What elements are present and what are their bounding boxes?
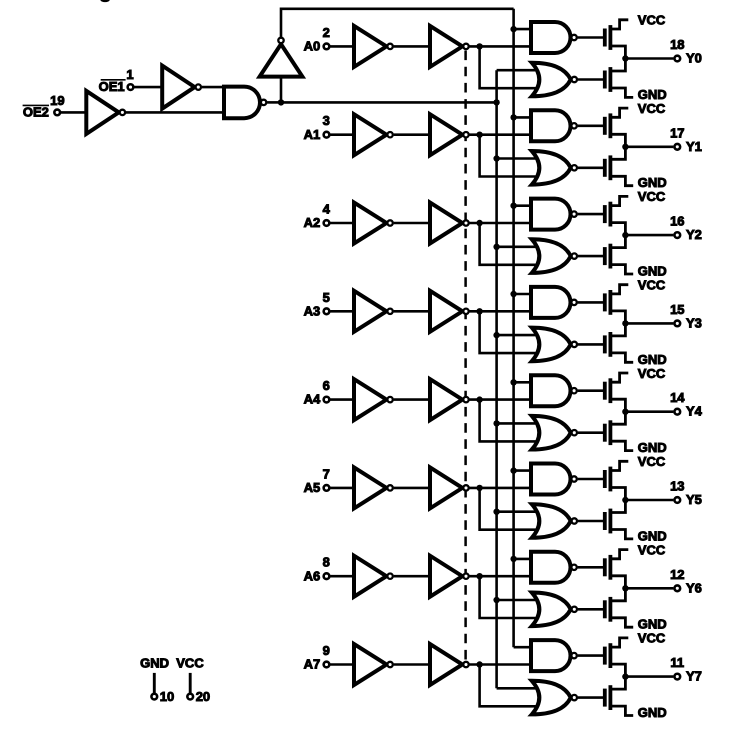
transistor Q3 source lead to output [610,134,625,147]
transistor Q8 gate bar [603,335,607,353]
wire NOR row 4 to transistor gate [578,431,605,434]
svg-text:VCC: VCC [638,101,666,116]
node output Y4 junction [622,409,628,415]
transistor Q2 gate bar [603,71,607,89]
transistor Q16 gate bar [603,689,607,707]
junction data node row 1 [476,132,482,138]
transistor Q3 gate bar [603,117,607,135]
svg-text:VCC: VCC [638,631,666,646]
output terminal Y4 (pin 14) [674,409,680,415]
bubble NOR row 7 [572,695,577,700]
wire A0 to first buffer [330,45,355,48]
transistor Q6 channel [609,244,613,269]
wire output to terminal Y7 [625,675,673,678]
wire A7 data to NAND row 7 [470,663,534,666]
wire A5 data to NAND row 5 [470,487,534,490]
wire net ENL branch to NOR row 7 [497,687,544,690]
wire NAND row 5 to transistor gate [578,478,605,481]
transistor Q13 source lead to output [610,576,625,589]
wire A2 first to second buffer [394,222,432,225]
transistor Q11 gate bar [603,470,607,488]
bubble inverter U2 [196,84,201,89]
junction data node row 5 [476,485,482,491]
svg-text:19: 19 [50,93,64,108]
wire NAND row 0 to transistor gate [578,36,605,39]
svg-text:A4: A4 [304,392,321,407]
transistor Q9 source lead to output [610,399,625,412]
svg-text:VCC: VCC [638,189,666,204]
svg-text:Y5: Y5 [686,492,702,507]
bubble NAND U3 output [261,100,266,105]
output terminal Y0 (pin 18) [674,56,680,62]
wire data drop to NOR row 5 [480,488,544,530]
buffer A5 second stage [430,467,462,508]
wire A2 to first buffer [330,222,355,225]
svg-text:4: 4 [323,202,331,217]
svg-text:OE1: OE1 [99,79,125,94]
svg-text:A7: A7 [304,657,321,672]
buffer A3 second stage [430,291,462,332]
overline for OE1 [101,79,126,81]
bubble A2 second stage [463,220,468,225]
junction net ENL row 6 [493,597,499,603]
NOR gate row 0 [532,63,571,97]
wire node EN to enable buffer U4 [280,78,283,103]
wire NAND row 4 to transistor gate [578,389,605,392]
svg-text:Y2: Y2 [686,227,702,242]
junction net ENH row 0 [510,26,516,32]
svg-text:GND: GND [638,617,667,632]
svg-text:Y7: Y7 [686,669,702,684]
wire A4 first to second buffer [394,398,432,401]
NAND gate row 4 [531,375,571,406]
svg-text:OE2: OE2 [23,105,49,120]
cropped text glyph fragment at top edge [100,0,109,2]
input terminal A2 (pin 4) [324,220,330,226]
bubble A6 first stage [387,574,392,579]
wire A1 first to second buffer [394,133,432,136]
transistor Q7 channel [609,290,613,315]
bubble A4 first stage [387,397,392,402]
wire output to terminal Y4 [625,410,673,413]
bubble NAND row 0 [571,35,576,40]
transistor Q9 channel [609,378,613,403]
enable NAND U3 [224,87,260,119]
svg-text:A2: A2 [304,215,321,230]
bubble NOR row 4 [572,430,577,435]
node output Y7 junction [622,673,628,679]
input terminal A7 (pin 9) [324,662,330,668]
wire A3 data to NAND row 3 [470,310,534,313]
NOR gate row 1 [532,151,571,185]
wire net ENL branch to NOR row 0 [497,69,544,72]
bubble A1 first stage [387,132,392,137]
transistor Q5 source lead to output [610,223,625,236]
wire VCC pin lead [189,673,192,693]
NOR gate row 4 [532,416,571,450]
junction data node row 4 [476,396,482,402]
junction net ENL row 4 [493,420,499,426]
bubble A2 first stage [387,220,392,225]
wire A3 first to second buffer [394,310,432,313]
junction data node row 3 [476,308,482,314]
wire A7 first to second buffer [394,663,432,666]
wire NOR row 1 to transistor gate [578,167,605,170]
transistor Q7 source lead to output [610,311,625,324]
wire net ENH branch to NAND row 7 [514,646,534,649]
transistor Q1 gate bar [603,29,607,47]
transistor Q1 drain lead to VCC [610,20,628,29]
wire NOR row 7 to transistor gate [578,696,605,699]
transistor Q2 drain lead to output [610,59,625,72]
wire data drop to NOR row 1 [480,135,544,177]
buffer A5 first stage [354,467,387,508]
bubble NAND row 6 [571,565,576,570]
node EN junction [278,99,284,105]
transistor Q14 channel [609,597,613,622]
wire A6 to first buffer [330,575,355,578]
transistor Q11 drain lead to VCC [610,461,628,470]
wire NAND U3 output to node EN [267,101,281,104]
transistor Q10 channel [609,420,613,445]
bubble NOR row 3 [572,342,577,347]
wire OE2 to inverter [61,111,88,114]
svg-text:VCC: VCC [638,542,666,557]
svg-text:Y3: Y3 [686,315,702,330]
transistor Q10 gate bar [603,424,607,442]
node output Y2 junction [622,232,628,238]
bubble A0 first stage [387,44,392,49]
wire NOR row 0 to transistor gate [578,78,605,81]
bubble NOR row 0 [572,77,577,82]
svg-text:VCC: VCC [638,278,666,293]
bubble A1 second stage [463,132,468,137]
svg-text:GND: GND [638,175,667,190]
overline for OE2 [23,104,49,106]
inverter U2 (OE1 path) [162,66,195,109]
svg-text:VCC: VCC [638,13,666,28]
wire net ENL vertical [495,70,498,688]
svg-text:6: 6 [323,378,330,393]
svg-text:GND: GND [638,528,667,543]
buffer A1 second stage [430,114,462,155]
transistor Q15 source lead to output [610,664,625,677]
node output Y5 junction [622,497,628,503]
svg-text:GND: GND [638,87,667,102]
svg-text:3: 3 [323,113,330,128]
bubble NAND row 4 [571,388,576,393]
input terminal OE2 (pin 19) [54,110,60,116]
transistor Q1 source lead to output [610,46,625,59]
wire net ENL branch to NOR row 2 [497,246,544,249]
wire NOR row 6 to transistor gate [578,608,605,611]
NAND gate row 7 [531,640,571,671]
wire net ENH top rail [281,9,514,37]
svg-text:17: 17 [670,125,684,140]
NAND gate row 2 [531,199,571,230]
transistor Q4 channel [609,155,613,180]
output terminal Y3 (pin 15) [674,321,680,327]
transistor Q15 gate bar [603,647,607,665]
transistor Q5 channel [609,202,613,227]
svg-text:11: 11 [670,655,684,670]
transistor Q2 channel [609,67,613,92]
wire A0 first to second buffer [394,45,432,48]
wire net ENL horizontal [281,101,497,104]
svg-text:GND: GND [638,440,667,455]
node ENL junction [493,99,499,105]
bubble A3 first stage [387,309,392,314]
transistor Q12 channel [609,509,613,534]
wire A1 to first buffer [330,133,355,136]
junction net ENL row 3 [493,332,499,338]
svg-text:13: 13 [670,479,684,494]
input terminal A4 (pin 6) [324,397,330,403]
NOR gate row 3 [532,328,571,362]
transistor Q16 drain lead to output [610,677,625,690]
NAND gate row 6 [531,552,571,583]
bubble inverter U1 [120,110,125,115]
transistor Q7 gate bar [603,293,607,311]
power terminal VCC (pin 20) [187,694,193,700]
transistor Q9 drain lead to VCC [610,373,628,382]
svg-text:8: 8 [323,555,330,570]
buffer A7 first stage [354,644,387,685]
svg-text:2: 2 [323,25,330,40]
transistor Q9 gate bar [603,382,607,400]
svg-text:Y6: Y6 [686,580,702,595]
transistor Q11 source lead to output [610,488,625,501]
wire net ENH branch to NAND row 1 [514,116,534,119]
buffer A3 first stage [354,291,387,332]
junction net ENL row 5 [493,509,499,515]
wire net ENL branch to NOR row 6 [497,599,544,602]
wire output to terminal Y3 [625,322,673,325]
wire OE1 to inverter [134,86,163,89]
svg-text:16: 16 [670,214,684,229]
transistor Q8 channel [609,332,613,357]
transistor Q5 gate bar [603,205,607,223]
bubble A5 second stage [463,485,468,490]
bubble A4 second stage [463,397,468,402]
output terminal Y6 (pin 12) [674,585,680,591]
svg-text:Y1: Y1 [686,139,702,154]
bubble NOR row 6 [572,607,577,612]
output terminal Y2 (pin 16) [674,232,680,238]
input terminal A0 (pin 2) [324,44,330,50]
dashed internal boundary line [464,51,467,662]
node output Y6 junction [622,585,628,591]
wire inverter U2 to NAND U3 [202,86,225,89]
svg-text:5: 5 [323,290,330,305]
NAND gate row 0 [531,22,570,53]
buffer A4 first stage [354,379,387,420]
wire net ENH branch to NAND row 0 [514,28,534,31]
wire NAND row 1 to transistor gate [578,125,605,128]
bubble NAND row 5 [571,476,576,481]
transistor Q13 drain lead to VCC [610,550,628,559]
wire output to terminal Y1 [625,146,673,149]
transistor Q8 drain lead to output [610,323,625,336]
transistor Q8 source lead to GND [610,353,633,362]
wire NOR row 2 to transistor gate [578,255,605,258]
svg-text:VCC: VCC [176,655,204,670]
svg-text:GND: GND [140,655,169,670]
wire net ENH branch to NAND row 4 [514,381,534,384]
NAND gate row 3 [531,287,571,318]
svg-text:A5: A5 [304,480,321,495]
svg-text:VCC: VCC [638,366,666,381]
svg-text:GND: GND [638,705,667,720]
NOR gate row 2 [532,239,571,273]
bubble NOR row 5 [572,518,577,523]
transistor Q14 drain lead to output [610,588,625,601]
bubble A5 first stage [387,485,392,490]
input terminal OE1 (pin 1) [128,84,134,90]
junction data node row 6 [476,573,482,579]
wire data drop to NOR row 6 [480,576,544,618]
wire A2 data to NAND row 2 [470,222,534,225]
junction net ENH row 5 [510,467,516,473]
wire data drop to NOR row 0 [480,46,544,88]
svg-text:VCC: VCC [638,454,666,469]
transistor Q12 source lead to GND [610,530,633,539]
transistor Q3 drain lead to VCC [610,108,628,117]
wire A6 data to NAND row 6 [470,575,534,578]
junction data node row 2 [476,220,482,226]
transistor Q10 drain lead to output [610,412,625,425]
NOR gate row 5 [532,504,571,538]
junction net ENH row 3 [510,291,516,297]
wire net ENH branch to NAND row 3 [514,293,534,296]
transistor Q13 gate bar [603,558,607,576]
buffer A6 second stage [430,556,462,597]
buffer A4 second stage [430,379,462,420]
transistor Q4 drain lead to output [610,147,625,160]
wire output to terminal Y5 [625,499,673,502]
transistor Q14 gate bar [603,600,607,618]
wire A3 to first buffer [330,310,355,313]
junction data node row 0 [476,43,482,49]
transistor Q15 channel [609,643,613,668]
transistor Q6 source lead to GND [610,265,633,274]
wire NAND row 6 to transistor gate [578,566,605,569]
transistor Q5 drain lead to VCC [610,196,628,205]
svg-text:10: 10 [160,689,174,704]
svg-text:GND: GND [638,264,667,279]
wire NAND row 3 to transistor gate [578,301,605,304]
bubble NAND row 2 [571,211,576,216]
output terminal Y5 (pin 13) [674,497,680,503]
wire A5 to first buffer [330,487,355,490]
wire data drop to NOR row 4 [480,400,544,442]
wire A5 first to second buffer [394,487,432,490]
node output Y1 junction [622,144,628,150]
inverter U1 (OE2 path) [86,91,119,134]
bubble A6 second stage [463,574,468,579]
output terminal Y1 (pin 17) [674,144,680,150]
svg-text:9: 9 [323,643,330,658]
wire data drop to NOR row 3 [480,311,544,353]
transistor Q7 drain lead to VCC [610,285,628,294]
wire A4 to first buffer [330,398,355,401]
transistor Q15 drain lead to VCC [610,638,628,647]
wire net ENH branch to NAND row 5 [514,469,534,472]
wire A7 to first buffer [330,663,355,666]
svg-text:Y0: Y0 [686,51,702,66]
bubble A3 second stage [463,309,468,314]
svg-text:A6: A6 [304,568,321,583]
buffer A0 second stage [430,26,462,67]
svg-text:12: 12 [670,567,684,582]
bubble A7 second stage [463,662,468,667]
buffer A6 first stage [354,556,387,597]
input terminal A6 (pin 8) [324,573,330,579]
wire net ENH branch to NAND row 6 [514,558,534,561]
transistor Q12 drain lead to output [610,500,625,513]
ground terminal GND (pin 10) [151,694,157,700]
junction net ENH row 2 [510,203,516,209]
wire A0 data to NAND row 0 [470,45,534,48]
wire NOR row 3 to transistor gate [578,343,605,346]
transistor Q3 channel [609,113,613,138]
wire net ENL branch to NOR row 5 [497,510,544,513]
wire A1 data to NAND row 1 [470,133,534,136]
bubble NAND row 3 [571,300,576,305]
wire GND pin lead [153,673,156,693]
wire A6 first to second buffer [394,575,432,578]
wire output to terminal Y2 [625,234,673,237]
wire output to terminal Y6 [625,587,673,590]
output terminal Y7 (pin 11) [674,674,680,680]
junction data node row 7 [476,661,482,667]
wire data drop to NOR row 2 [480,223,544,265]
junction net ENL row 2 [493,244,499,250]
svg-text:18: 18 [670,37,684,52]
bubble NAND row 1 [571,123,576,128]
transistor Q11 channel [609,467,613,492]
wire net ENL branch to NOR row 4 [497,422,544,425]
svg-text:Y4: Y4 [686,404,703,419]
wire NOR row 5 to transistor gate [578,520,605,523]
wire net ENH vertical [512,9,515,647]
NAND gate row 5 [531,464,571,495]
svg-text:14: 14 [670,390,685,405]
NOR gate row 7 [532,681,571,715]
svg-text:GND: GND [638,352,667,367]
svg-text:A1: A1 [304,127,321,142]
transistor Q2 source lead to GND [610,88,633,97]
NAND gate row 1 [531,110,571,141]
wire output to terminal Y0 [625,57,673,60]
transistor Q13 channel [609,555,613,580]
input terminal A3 (pin 5) [324,308,330,314]
wire data drop to NOR row 7 [480,665,544,707]
junction net ENH row 4 [510,379,516,385]
bubble buffer U4 output [278,38,283,43]
buffer A2 second stage [430,203,462,244]
transistor Q16 channel [609,685,613,710]
transistor Q16 source lead to GND [610,706,633,715]
wire net ENL branch to NOR row 1 [497,157,544,160]
NOR gate row 6 [532,593,571,627]
wire A4 data to NAND row 4 [470,398,534,401]
wire inverter U1 to NAND U3 [126,111,225,114]
wire NAND row 2 to transistor gate [578,213,605,216]
node output Y3 junction [622,320,628,326]
transistor Q4 gate bar [603,159,607,177]
svg-text:15: 15 [670,302,684,317]
